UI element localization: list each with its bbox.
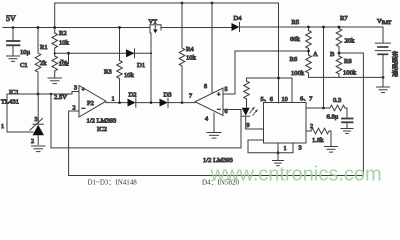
IC1 TL431 — [37, 94, 39, 124]
svg-text:B: B — [330, 51, 335, 58]
capacitor C1 — [12, 28, 14, 41]
wire bus1 (2.5V feedback bus) — [51, 110, 241, 148]
resistor R7 — [338, 27, 340, 29]
wire LED to pin 9 — [246, 128, 264, 130]
svg-text:D2: D2 — [129, 92, 137, 99]
svg-text:A: A — [313, 51, 318, 58]
svg-text:3: 3 — [74, 85, 77, 92]
wire TL431 ref pin — [7, 131, 33, 133]
resistor 1.8k — [311, 128, 329, 134]
ground (6.8u) — [341, 129, 353, 134]
wire battery minus bus y=77.4 — [309, 76, 384, 78]
svg-text:VT: VT — [149, 19, 158, 26]
resistor R4 — [181, 3, 183, 48]
diode D2 — [128, 99, 136, 107]
svg-text:100k: 100k — [343, 70, 357, 77]
svg-text:0.3: 0.3 — [333, 97, 342, 104]
svg-text:R5: R5 — [292, 19, 300, 26]
svg-text:D1: D1 — [137, 62, 145, 69]
svg-text:10: 10 — [282, 96, 288, 103]
wire top 5V line y=3 — [55, 3, 279, 103]
svg-text:1: 1 — [284, 145, 287, 152]
ground (pot) — [48, 78, 62, 84]
svg-text:R4: R4 — [186, 46, 194, 53]
battery Vbat — [382, 27, 384, 43]
resistor R5 — [308, 27, 310, 31]
svg-text:D3: D3 — [164, 92, 173, 99]
svg-text:5、6: 5、6 — [261, 96, 273, 103]
svg-text:IC1: IC1 — [9, 89, 19, 96]
svg-text:−: − — [217, 107, 221, 114]
svg-text:R6: R6 — [290, 56, 298, 63]
IC U3 charge controller box — [264, 103, 307, 144]
wire pot wiper — [68, 53, 70, 63]
svg-text:6: 6 — [225, 108, 228, 115]
svg-text:7: 7 — [189, 93, 192, 100]
diode D3 — [160, 99, 168, 107]
LED light arrows — [250, 107, 254, 113]
ground (battery) — [377, 87, 390, 93]
svg-text:池: 池 — [392, 68, 399, 77]
wire 5V rail left (y=27.5) — [3, 27, 150, 29]
wire pin 6,7 to 0.3 sense — [306, 107, 330, 109]
wire pin1 to ground node — [277, 143, 279, 160]
svg-text:66k: 66k — [290, 36, 301, 43]
svg-text:6、7: 6、7 — [300, 96, 312, 103]
svg-text:+: + — [217, 93, 221, 99]
resistor R3 — [119, 28, 121, 61]
svg-text:100k: 100k — [291, 70, 305, 77]
wire 2.5V drop to bus1 — [50, 94, 52, 148]
wire pin4 to ground — [213, 113, 215, 132]
svg-text:R7: R7 — [340, 15, 348, 22]
capacitor 6.8u — [346, 108, 348, 118]
wire pin8 V+ — [211, 3, 213, 93]
resistor R8 — [336, 56, 342, 74]
node junction top line pin8 — [211, 2, 214, 5]
svg-text:IC2: IC2 — [97, 126, 107, 133]
ground (C1) — [7, 56, 20, 61]
ground (IC2b pin4) — [207, 133, 221, 139]
wire bus2 (node B bus) — [69, 53, 364, 176]
op-amp U2 IC2b (mirrored) — [195, 88, 223, 116]
svg-text:5V: 5V — [6, 14, 16, 23]
svg-text:2k: 2k — [40, 60, 47, 67]
ground (TL431) — [32, 146, 46, 152]
wire pin3 loop — [248, 140, 293, 153]
svg-text:10k: 10k — [59, 40, 70, 47]
svg-text:TL431: TL431 — [1, 99, 19, 106]
svg-text:4: 4 — [205, 116, 208, 123]
wire pin5 to node A — [223, 51, 309, 94]
wire pin2 — [306, 130, 311, 132]
svg-text:3: 3 — [299, 145, 302, 152]
wire sense vertical — [323, 27, 325, 108]
svg-text:2.5V: 2.5V — [54, 94, 67, 101]
wire P2 output line — [106, 102, 128, 104]
node junction top line R4 — [181, 2, 184, 5]
svg-text:2: 2 — [73, 105, 76, 112]
svg-text:1: 1 — [112, 96, 115, 103]
ground (1.8k) — [325, 147, 338, 153]
svg-text:R8: R8 — [344, 58, 352, 65]
wire D2 cathode to D3 anode — [136, 102, 160, 104]
potentiometer 10k — [52, 56, 58, 71]
LED — [242, 108, 250, 116]
svg-text:20k: 20k — [345, 38, 356, 45]
svg-text:2: 2 — [31, 138, 34, 145]
resistor 0.3 — [330, 105, 347, 111]
svg-text:R1: R1 — [40, 44, 48, 51]
resistor R2 — [52, 33, 58, 48]
transistor VT — [150, 25, 161, 33]
resistor R1 — [37, 28, 39, 54]
svg-text:D1~D3：IN4148: D1~D3：IN4148 — [88, 179, 138, 187]
svg-text:C1: C1 — [20, 62, 28, 69]
svg-text:3: 3 — [35, 116, 38, 123]
svg-text:1.8k: 1.8k — [312, 137, 324, 144]
diode D4 — [232, 23, 240, 31]
svg-text:10k: 10k — [186, 55, 197, 62]
svg-text:5: 5 — [225, 86, 228, 93]
wire VT base down to control node — [150, 33, 152, 103]
wire pot line to VT base (y=53.3) — [55, 52, 151, 54]
wire D3 cathode to comparator output — [168, 102, 195, 104]
wire rail D4 cathode to battery corner — [240, 26, 384, 28]
node 2.5V line — [7, 92, 79, 133]
resistor (LED series) — [246, 78, 248, 81]
svg-text:1/2 LM393: 1/2 LM393 — [87, 118, 118, 125]
svg-text:R3: R3 — [104, 69, 112, 76]
svg-text:10k: 10k — [59, 61, 70, 68]
svg-text:10μ: 10μ — [20, 49, 31, 56]
wire rail VT to D4 — [161, 27, 232, 29]
op-amp U1 IC2a P2 — [79, 86, 106, 118]
svg-text:P2: P2 — [87, 100, 94, 107]
svg-text:9: 9 — [247, 122, 250, 129]
svg-text:−: − — [82, 106, 86, 113]
svg-text:VBAT: VBAT — [377, 18, 391, 26]
wire 5V segment to LED resistor / IC — [247, 78, 293, 103]
svg-text:8: 8 — [204, 83, 207, 90]
resistor R6 — [306, 55, 312, 73]
svg-text:D4: D4 — [234, 15, 243, 22]
wire P2 pin2 to bus — [69, 111, 79, 176]
svg-text:10k: 10k — [124, 72, 135, 79]
svg-text:6.8μ: 6.8μ — [327, 114, 339, 121]
diode D1 — [126, 49, 134, 57]
svg-text:www.cntronics.com: www.cntronics.com — [210, 164, 382, 186]
svg-text:1: 1 — [1, 123, 4, 130]
ground (IC pin1) — [273, 161, 284, 166]
svg-text:R2: R2 — [59, 30, 67, 37]
